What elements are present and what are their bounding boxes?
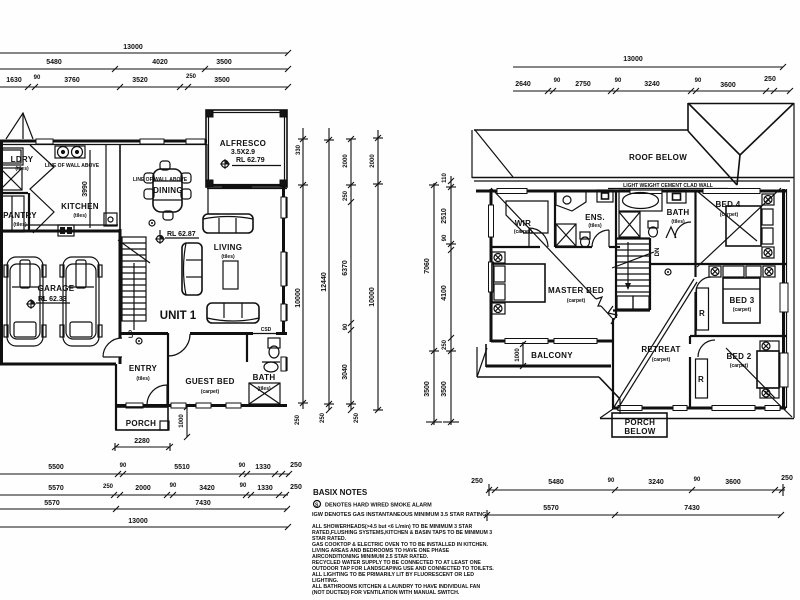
svg-text:(tiles): (tiles) [13,222,27,228]
svg-text:5510: 5510 [174,464,190,471]
svg-text:BATH: BATH [667,208,690,217]
svg-text:(tiles): (tiles) [588,223,602,229]
svg-text:R: R [699,309,705,318]
porch outline [116,407,168,430]
kitchen sink [104,213,117,226]
front door arc [147,385,167,405]
dining table [153,169,182,212]
wall: bath/bed4 row south [650,263,786,265]
smoke alarm first floor [665,269,671,275]
svg-text:ENS.: ENS. [585,213,605,222]
windows top wall [497,189,527,194]
window: dining top wall [186,139,205,144]
svg-text:(NOT DUCTED) FOR VENTILATION W: (NOT DUCTED) FOR VENTILATION WITH MANUAL… [312,590,460,596]
ENS toilet [580,232,590,247]
dimension row 5570/7430 bottom-right [484,505,784,521]
svg-text:5570: 5570 [48,485,64,492]
dimension row 1630/90/3760/3520/250/3500 top-left [0,74,291,90]
svg-text:PORCH: PORCH [126,419,156,428]
svg-text:ENTRY: ENTRY [129,364,158,373]
bed 3 [723,278,760,323]
windows master south wall [505,339,548,344]
wall: garage east [119,229,122,338]
wall: first floor bottom exterior [612,407,786,410]
svg-text:RETREAT: RETREAT [641,345,680,354]
under stair cupboards [617,296,649,309]
porch below eave [600,418,794,420]
smoke alarm legend [314,501,321,508]
svg-text:3500: 3500 [441,381,448,397]
svg-text:250: 250 [295,414,301,425]
svg-text:3240: 3240 [644,81,660,88]
vertical dimension line 12440/250 [320,128,334,423]
bed 4 [726,194,774,258]
svg-text:3240: 3240 [648,479,664,486]
dimension row 250/5480/90/3240/90/3600/250 bottom-right [471,475,793,496]
svg-text:10000: 10000 [369,287,376,307]
svg-text:(carpet): (carpet) [514,229,533,235]
svg-text:250: 250 [442,339,448,350]
svg-text:WIR: WIR [515,219,531,228]
svg-text:13000: 13000 [128,518,148,525]
wall: hallway/bed3 [694,264,696,277]
alfresco outline [206,110,287,187]
vertical dimension line 330/10000 [295,128,308,425]
svg-text:LINE OF WALL ABOVE: LINE OF WALL ABOVE [45,163,100,169]
svg-text:330: 330 [296,144,302,155]
diagonal ceiling line over WIR/master [491,188,596,299]
svg-text:90: 90 [120,463,127,469]
wall: ldry/pantry divider [0,192,28,194]
svg-text:PORCH: PORCH [625,418,655,427]
svg-text:(carpet): (carpet) [567,298,586,304]
dimension row 5570/7430 bottom-left [0,500,290,512]
wall: kitchen east / stair void [119,144,121,232]
svg-text:3520: 3520 [132,77,148,84]
svg-text:(tiles): (tiles) [136,376,150,382]
svg-text:2000: 2000 [370,154,376,168]
bed2 robe R [696,359,708,398]
svg-text:250: 250 [471,478,483,485]
svg-text:3500: 3500 [216,59,232,66]
svg-text:5570: 5570 [543,505,559,512]
svg-text:R: R [698,375,704,384]
wall: bath west [246,333,248,362]
master bed [492,252,545,314]
svg-text:90: 90 [694,477,701,483]
svg-text:3500: 3500 [424,381,431,397]
svg-text:KITCHEN: KITCHEN [61,202,99,211]
svg-text:3600: 3600 [720,82,736,89]
svg-text:1000: 1000 [179,414,185,428]
line of wall above (dining) [207,144,209,214]
dimension row 13000 top-left [0,44,291,56]
svg-text:3600: 3600 [725,479,741,486]
roof hip diagonal left [475,130,513,177]
windows left wall [489,205,494,237]
dimension porch 2280 [112,438,173,451]
svg-text:250: 250 [290,462,302,469]
wall: retreat west [612,318,614,408]
wall: right exterior [782,189,785,408]
svg-text:250: 250 [354,412,360,423]
WIR closet [506,201,548,233]
svg-text:250: 250 [103,484,114,490]
wall: bed3/bed2 [690,335,786,337]
svg-text:DN: DN [655,248,661,257]
bed4 ceiling diagonals [697,191,757,241]
bath shower crossbox [249,383,280,404]
datum RL 62.87 [155,230,199,244]
bath linen crossbox [619,212,640,237]
svg-text:7430: 7430 [684,505,700,512]
svg-text:3420: 3420 [199,485,215,492]
svg-text:RL 62.79: RL 62.79 [236,157,265,164]
datum RL 62.33 [26,296,70,309]
svg-text:90: 90 [695,78,702,84]
svg-text:BED 3: BED 3 [729,296,754,305]
svg-text:10000: 10000 [295,288,302,308]
wall: bath / bed4 [694,190,696,264]
door to bed2 [698,340,715,357]
bed 2 [757,341,779,398]
laundry appliances [0,148,23,165]
door to ENS [592,230,609,247]
windows right wall [780,283,788,312]
bath toilet [648,221,658,237]
dimension row 5570/250/2000/90/3420/90/1330/250 bottom-left [0,483,302,498]
car 1 [4,257,46,346]
roof over bed4: outline [688,103,794,105]
svg-text:GUEST BED: GUEST BED [185,377,234,386]
wall: WIR south [491,246,540,248]
sofa top horizontal [203,214,253,233]
dining chairs [144,161,191,220]
windows bottom wall [126,403,143,408]
wall: bed2 west [689,336,691,344]
svg-text:250: 250 [343,190,349,201]
svg-text:4100: 4100 [441,285,448,301]
svg-text:90: 90 [615,78,622,84]
wall: entry west / porch [115,364,117,430]
door: guest bed entry arc [168,334,190,356]
svg-text:3760: 3760 [64,77,80,84]
svg-text:BASIX NOTES: BASIX NOTES [313,488,368,497]
svg-text:(carpet): (carpet) [733,307,752,313]
svg-text:(tiles): (tiles) [73,213,87,219]
svg-text:2000: 2000 [135,485,151,492]
laundry tub crossbox [0,168,22,190]
svg-text:BALCONY: BALCONY [531,351,573,360]
svg-text:250: 250 [781,475,793,482]
svg-text:7060: 7060 [424,258,431,274]
break symbol master/retreat [608,306,617,324]
door: garage to entry [103,338,122,357]
door to bath [675,222,691,238]
svg-text:3040: 3040 [342,364,349,380]
svg-text:2510: 2510 [441,208,448,224]
notes paragraph [312,524,494,596]
alfresco corner posts [206,110,213,117]
wall: stairs east [649,238,651,310]
bed3 robe row [709,266,775,277]
windows bottom wall [618,406,642,411]
window: living east wall [281,197,286,218]
svg-text:5480: 5480 [548,479,564,486]
svg-text:2280: 2280 [134,438,150,445]
svg-text:90: 90 [239,463,246,469]
wall: ENS east / stair column [615,190,617,318]
wall: garage front [0,363,116,366]
dimension row 13000 bottom-left [0,518,291,530]
door: pantry/kitchen zigzags [30,145,54,233]
wall: first floor left exterior [490,189,493,342]
door to WIR [529,228,548,247]
stairs up [118,237,150,330]
wall: entry/guest top [120,332,168,335]
svg-text:90: 90 [34,75,41,81]
skylight box symbol 1 [597,190,613,202]
svg-text:90: 90 [343,323,349,330]
vertical dimension line 7060/3500 right plan [424,182,442,425]
line of wall above (kitchen) [89,150,91,228]
svg-text:(carpet): (carpet) [652,357,671,363]
smoke alarm entry [136,338,142,344]
svg-text:LDRY: LDRY [11,155,34,164]
roof over bed4: valley V [689,104,740,155]
balcony [485,344,487,367]
svg-text:LINE OF WALL ABOVE: LINE OF WALL ABOVE [133,177,188,183]
svg-text:12440: 12440 [321,272,328,292]
sofa chaise vertical [182,243,202,295]
svg-text:BED 4: BED 4 [715,200,740,209]
svg-text:2640: 2640 [515,81,531,88]
svg-text:90: 90 [554,78,561,84]
svg-text:250: 250 [320,412,326,423]
roof below: main eave band [474,129,688,131]
svg-text:2000: 2000 [343,154,349,168]
wall: ENS south [555,246,592,248]
svg-text:GARAGE: GARAGE [38,284,75,293]
retreat ceiling diagonals [614,279,694,407]
svg-text:13000: 13000 [123,44,143,51]
svg-text:3.5X2.9: 3.5X2.9 [231,149,255,156]
kitchen east bench [105,144,107,225]
door: ldry external zigzag [6,113,33,139]
svg-text:1630: 1630 [6,77,22,84]
svg-text:RL 62.87: RL 62.87 [167,231,196,238]
svg-text:DENOTES HARD WIRED SMOKE ALARM: DENOTES HARD WIRED SMOKE ALARM [325,503,432,509]
svg-text:250: 250 [764,76,776,83]
svg-text:4020: 4020 [152,59,168,66]
door to bed3 [696,277,711,292]
wall: stairwell north [616,237,650,239]
vertical dimension line 110/2510/90/4100/250/3500 right plan [441,173,459,425]
svg-text:110: 110 [442,173,448,183]
svg-text:ROOF BELOW: ROOF BELOW [629,153,687,162]
window: kitchen top wall [140,139,164,144]
svg-text:3990: 3990 [82,181,89,197]
svg-text:90: 90 [240,483,247,489]
svg-text:RL 62.33: RL 62.33 [38,296,67,303]
pantry shelves [0,196,24,232]
window: bath east [281,357,286,371]
svg-text:(carpet): (carpet) [201,389,220,395]
svg-text:90: 90 [170,483,177,489]
bed3 robe R [697,288,709,330]
svg-text:7430: 7430 [195,500,211,507]
svg-text:UNIT 1: UNIT 1 [160,310,197,322]
wall: garage top [0,230,120,233]
dimension row 2640/90/2750/90/3240/90/3600/250 top-right [513,76,793,94]
svg-text:90: 90 [608,478,615,484]
svg-text:DINING: DINING [153,186,183,195]
wall: master south [491,340,613,343]
ENS shower crossbox [556,224,576,246]
svg-text:250: 250 [186,74,197,80]
vertical dimension line 2000/10000 [369,130,383,413]
svg-text:BATH: BATH [253,373,276,382]
wall: ground floor top exterior [0,140,207,143]
svg-text:PANTRY: PANTRY [3,211,37,220]
wall: ground floor bottom exterior [116,404,287,407]
svg-text:5570: 5570 [44,500,60,507]
bath basin [262,362,280,372]
roof below balcony eaves [476,347,478,377]
svg-text:LIVING: LIVING [214,243,242,252]
porch below box [612,413,667,437]
svg-text:6370: 6370 [342,260,349,276]
dim 1000 balcony [522,342,524,366]
wall: left edge (cut) [0,141,3,364]
svg-text:1330: 1330 [255,464,271,471]
svg-text:1000: 1000 [515,348,521,362]
window: ldry top wall [36,139,53,144]
rug / tv unit [223,261,238,289]
dimension row 5480/4020/3500 top-left [0,59,291,72]
svg-text:5480: 5480 [46,59,62,66]
window sill marks living east [286,197,288,218]
wall: alfresco / living sliding door [207,185,287,187]
bath tub [619,190,662,211]
kitchen bench and cooktop [25,224,118,226]
svg-text:MASTER BED: MASTER BED [548,286,604,295]
svg-text:250: 250 [290,484,302,491]
dimension row 13000 top-right [513,56,786,70]
roof right eave [793,103,795,418]
skylight box symbol 2 [667,190,686,203]
svg-text:90: 90 [442,234,448,241]
wall: hall south of stairs [613,309,650,311]
svg-text:BELOW: BELOW [624,427,655,436]
ENS vanity [556,191,586,211]
bed2 ceiling diagonal [726,348,775,398]
porch post [160,421,169,430]
wall: guest bed west [167,333,169,405]
stairs down [612,242,654,292]
vertical dimension line 2000/250/6370/90/3040/250 [342,136,360,423]
svg-text:CSD: CSD [261,327,272,333]
svg-text:1330: 1330 [257,485,273,492]
bath toilet [268,338,280,358]
dimension row 5500/90/5510/90/1330/250 bottom-left [0,462,302,477]
wall: ENS west [554,190,556,247]
svg-text:BED 2: BED 2 [726,352,751,361]
svg-text:3500: 3500 [214,77,230,84]
wall: first floor top exterior [476,190,786,193]
svg-text:13000: 13000 [623,56,643,63]
datum RL 62.79 [220,157,281,169]
svg-text:5500: 5500 [48,464,64,471]
wall: right exterior living [282,187,285,334]
svg-text:(tiles): (tiles) [221,254,235,260]
sofa bottom horizontal [207,303,259,323]
car 2 [60,257,102,346]
svg-text:(tiles): (tiles) [15,166,29,172]
svg-text:IGW DENOTES GAS INSTANTANEOUS: IGW DENOTES GAS INSTANTANEOUS MINIMUM 3.… [312,512,486,518]
svg-text:ALFRESCO: ALFRESCO [220,139,266,148]
cooktop circles [55,146,85,158]
svg-text:2750: 2750 [575,81,591,88]
smoke alarm dining [149,220,155,226]
dimension 1000 porch depth [179,404,190,440]
